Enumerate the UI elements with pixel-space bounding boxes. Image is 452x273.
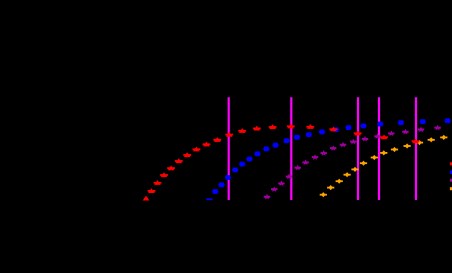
clipped legend marker #ff0000 bbox=[450, 162, 452, 165]
curve 2 (blue squares, x-errorbars) bbox=[206, 118, 450, 200]
vertical line V3 bbox=[357, 97, 359, 200]
vertical line V5 bbox=[415, 97, 417, 200]
clipped legend marker #ffa500 bbox=[450, 187, 452, 190]
vertical line V4 bbox=[378, 97, 380, 200]
clipped legend marker #a000a0 bbox=[450, 179, 452, 182]
clipped legend marker #0000ff bbox=[450, 170, 452, 174]
curve 1 (red triangles, x-errorbars) bbox=[143, 124, 420, 201]
curve 3 (purple stars, x-errorbars) bbox=[264, 125, 441, 200]
vertical line V1 bbox=[228, 97, 230, 200]
vertical line V2 bbox=[290, 97, 292, 200]
curve 4 (orange diamonds, x-errorbars) bbox=[320, 135, 448, 197]
